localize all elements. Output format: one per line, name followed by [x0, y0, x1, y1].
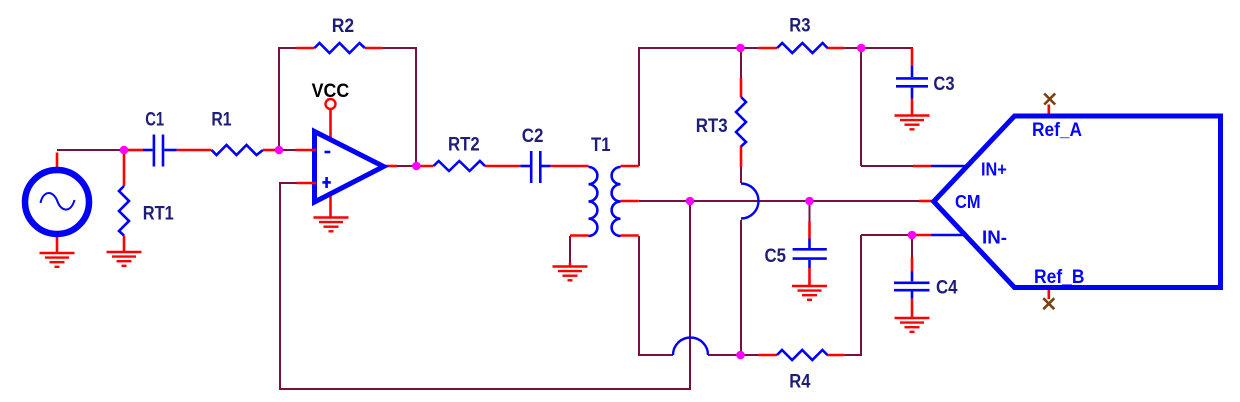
svg-text:T1: T1 — [591, 135, 611, 156]
svg-text:IN-: IN- — [982, 228, 1007, 248]
svg-text:C1: C1 — [145, 110, 164, 131]
svg-text:R1: R1 — [211, 110, 232, 131]
svg-text:R2: R2 — [332, 16, 354, 37]
svg-text:Ref_B: Ref_B — [1034, 267, 1085, 288]
svg-text:RT2: RT2 — [448, 135, 480, 156]
svg-text:RT3: RT3 — [696, 116, 728, 137]
svg-text:VCC: VCC — [312, 81, 350, 102]
svg-text:IN+: IN+ — [981, 160, 1007, 180]
svg-text:R4: R4 — [789, 372, 811, 393]
svg-text:RT1: RT1 — [143, 204, 174, 225]
svg-text:Ref_A: Ref_A — [1032, 120, 1082, 141]
svg-text:CM: CM — [955, 192, 981, 212]
svg-text:C2: C2 — [522, 126, 544, 147]
svg-text:R3: R3 — [789, 16, 810, 37]
svg-text:C5: C5 — [765, 246, 787, 267]
svg-text:C3: C3 — [933, 74, 954, 95]
svg-text:C4: C4 — [936, 278, 958, 299]
